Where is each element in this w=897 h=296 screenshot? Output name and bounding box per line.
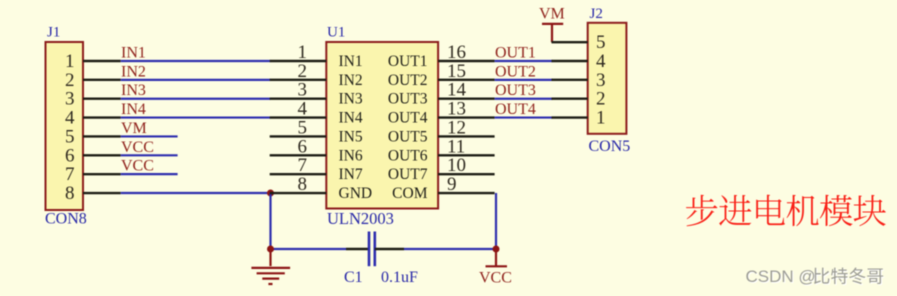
U1 pin 5 stub (270, 135, 327, 137)
junction at VCC (493, 246, 500, 253)
svg-text:VCC: VCC (121, 139, 154, 156)
wire net IN4 (121, 116, 271, 118)
svg-text:IN3: IN3 (339, 91, 363, 108)
svg-text:IN2: IN2 (339, 72, 363, 89)
svg-text:VM: VM (121, 120, 147, 137)
wire net OUT3 (495, 98, 553, 100)
J2 pin 3 stub (552, 79, 588, 81)
svg-text:U1: U1 (327, 25, 345, 41)
svg-text:IN5: IN5 (339, 128, 363, 145)
svg-text:COM: COM (392, 185, 428, 202)
svg-text:VM: VM (539, 6, 565, 23)
svg-text:11: 11 (447, 136, 465, 157)
U1 pin 1 stub (270, 60, 327, 62)
svg-text:ULN2003: ULN2003 (327, 209, 394, 228)
wire net OUT1 (495, 60, 553, 62)
wire net IN1 (121, 60, 271, 62)
U1 pin 12 stub (438, 135, 495, 137)
U1 pin 8 stub (270, 192, 327, 194)
wire net VCC (row 7) (121, 173, 178, 175)
svg-text:J1: J1 (47, 25, 60, 41)
svg-text:OUT2: OUT2 (495, 63, 536, 80)
svg-text:OUT3: OUT3 (388, 91, 428, 108)
svg-text:2: 2 (596, 89, 606, 110)
U1 pin 16 stub (438, 60, 495, 62)
J1 pin 1 stub (83, 60, 121, 62)
svg-text:8: 8 (65, 183, 75, 204)
svg-text:9: 9 (447, 174, 457, 195)
svg-text:IN7: IN7 (339, 166, 363, 183)
wire rail ground-to-C1 (271, 248, 347, 250)
svg-text:12: 12 (447, 117, 466, 138)
svg-text:IN6: IN6 (339, 147, 363, 164)
wire net OUT2 (495, 79, 553, 81)
junction at U1 pin 8 (267, 190, 274, 197)
U1 pin 6 stub (270, 154, 327, 156)
title text 步进电机模块 (686, 195, 886, 227)
svg-text:3: 3 (298, 80, 308, 101)
svg-text:1: 1 (65, 51, 75, 72)
svg-text:GND: GND (339, 185, 373, 202)
op IC U1 body (326, 42, 438, 209)
svg-text:IN4: IN4 (339, 110, 363, 127)
svg-text:C1: C1 (344, 269, 363, 286)
svg-text:CSDN @: CSDN @ (746, 267, 816, 286)
svg-text:OUT4: OUT4 (388, 110, 428, 127)
wire net IN3 (121, 98, 271, 100)
watermark 比特冬哥 (815, 269, 884, 286)
svg-text:CON8: CON8 (45, 211, 87, 228)
svg-text:2: 2 (65, 70, 75, 91)
svg-text:15: 15 (447, 61, 466, 82)
U1 pin 14 stub (438, 98, 495, 100)
J1 pin 2 stub (83, 79, 121, 81)
wire net COM vertical (495, 193, 497, 249)
U1 pin 11 stub (438, 154, 495, 156)
svg-text:8: 8 (298, 174, 308, 195)
wire net VM (row 5) (121, 135, 178, 137)
wire net IN2 (121, 79, 271, 81)
svg-text:OUT4: OUT4 (495, 101, 536, 118)
power VM stem (551, 24, 553, 42)
svg-text:6: 6 (65, 145, 75, 166)
J1 pin 4 stub (83, 116, 121, 118)
svg-text:1: 1 (298, 42, 308, 63)
svg-text:7: 7 (65, 164, 75, 185)
svg-text:CON5: CON5 (589, 138, 631, 155)
capacitor C1 left stub (346, 248, 369, 250)
svg-text:IN1: IN1 (339, 53, 363, 70)
svg-text:3: 3 (65, 89, 75, 110)
svg-text:VCC: VCC (121, 158, 154, 175)
ground symbol (251, 249, 290, 284)
J2 pin 1 stub (552, 116, 588, 118)
capacitor C1 right stub (375, 248, 404, 250)
svg-text:4: 4 (65, 108, 75, 129)
J2 pin 5 stub (552, 41, 588, 43)
svg-text:5: 5 (596, 32, 606, 53)
U1 pin 15 stub (438, 79, 495, 81)
svg-text:16: 16 (447, 42, 466, 63)
svg-text:OUT2: OUT2 (388, 72, 428, 89)
svg-text:14: 14 (447, 80, 467, 101)
svg-text:1: 1 (596, 108, 606, 129)
svg-text:OUT7: OUT7 (388, 166, 428, 183)
svg-text:5: 5 (298, 117, 308, 138)
U1 pin 9 stub (438, 192, 495, 194)
U1 pin 2 stub (270, 79, 327, 81)
capacitor C1 plates (369, 232, 375, 267)
J1 pin 6 stub (83, 154, 121, 156)
svg-text:4: 4 (596, 51, 606, 72)
wire GND vertical drop (269, 193, 271, 249)
wire net GND (row 8) (121, 192, 271, 194)
J1 pin 8 stub (83, 192, 121, 194)
power VCC symbol (486, 249, 508, 266)
U1 pin 7 stub (270, 173, 327, 175)
svg-text:IN2: IN2 (121, 63, 146, 80)
svg-text:OUT1: OUT1 (495, 45, 536, 62)
power VM bar (542, 23, 563, 25)
svg-text:6: 6 (298, 136, 308, 157)
J1 pin 3 stub (83, 98, 121, 100)
svg-text:7: 7 (298, 155, 308, 176)
svg-text:3: 3 (596, 70, 606, 91)
svg-text:VCC: VCC (479, 270, 512, 287)
svg-text:10: 10 (447, 155, 466, 176)
wire net VCC (row 6) (121, 154, 178, 156)
U1 pin 4 stub (270, 116, 327, 118)
svg-text:OUT5: OUT5 (388, 128, 428, 145)
J1 pin 5 stub (83, 135, 121, 137)
J2 pin 2 stub (552, 98, 588, 100)
svg-text:OUT6: OUT6 (388, 147, 428, 164)
connector J1 body (46, 42, 84, 210)
svg-text:OUT1: OUT1 (388, 53, 428, 70)
svg-text:2: 2 (298, 61, 308, 82)
svg-text:0.1uF: 0.1uF (381, 269, 418, 286)
U1 pin 3 stub (270, 98, 327, 100)
U1 pin 13 stub (438, 116, 495, 118)
junction at ground (267, 246, 274, 253)
svg-text:13: 13 (447, 99, 466, 120)
svg-text:OUT3: OUT3 (495, 82, 536, 99)
svg-text:J2: J2 (590, 6, 603, 22)
wire net OUT4 (495, 116, 553, 118)
svg-text:IN3: IN3 (121, 82, 146, 99)
wire rail C1-to-VCC (404, 248, 496, 250)
J2 pin 4 stub (552, 60, 588, 62)
connector J2 body (588, 23, 627, 134)
J1 pin 7 stub (83, 173, 121, 175)
svg-text:5: 5 (65, 126, 75, 147)
svg-text:IN4: IN4 (121, 101, 146, 118)
U1 pin 10 stub (438, 173, 495, 175)
svg-text:4: 4 (298, 99, 308, 120)
svg-text:IN1: IN1 (121, 45, 146, 62)
